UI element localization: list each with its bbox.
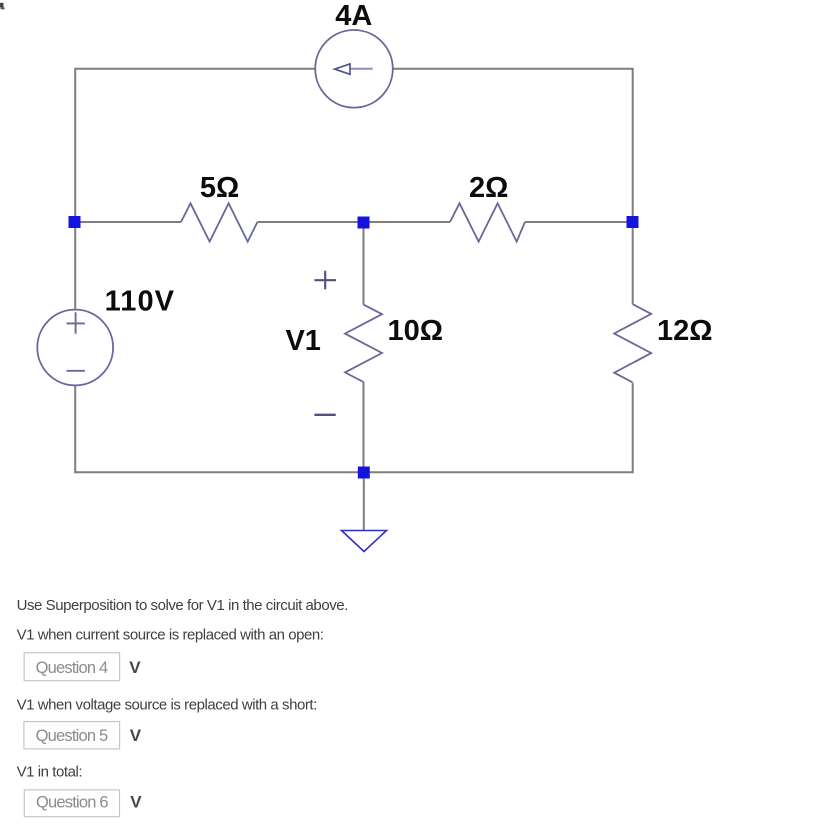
wire middle rail segment C [364,221,451,223]
wire middle rail segment B [257,221,363,223]
resistor R2 2Ω [450,203,525,241]
wire bottom rail [74,471,632,473]
svg-text:4A: 4A [335,0,372,32]
resistor R4 12Ω [614,304,651,382]
svg-text:2Ω: 2Ω [469,172,508,204]
svg-text:V: V [130,726,142,745]
resistor R1 5Ω [181,203,257,241]
svg-text:V1 when current source is repl: V1 when current source is replaced with … [17,626,324,643]
svg-text:V: V [129,658,141,677]
wire middle branch lower [363,382,365,472]
svg-text:5Ω: 5Ω [200,172,239,204]
svg-text:12Ω: 12Ω [657,315,713,347]
svg-text:110V: 110V [105,286,176,318]
wire top rail right segment [393,68,633,70]
wire left rail lower [74,385,76,473]
wire top rail left segment [75,68,315,70]
wire right rail upper [632,68,634,304]
wire middle rail segment D [525,221,633,223]
svg-text:V1 when voltage source is repl: V1 when voltage source is replaced with … [17,696,317,713]
wire middle rail segment A [75,221,181,223]
node B middle junction [358,217,370,229]
answer box Question 4 [24,653,119,681]
svg-text:V1 in total:: V1 in total: [17,763,82,780]
answer box Question 5 [24,722,120,749]
node A left junction [69,216,81,228]
svg-text:Question 4: Question 4 [36,659,108,677]
wire left rail upper [74,68,76,310]
svg-text:V: V [130,792,142,811]
svg-text:V1: V1 [285,325,320,357]
voltage source VS 110V [37,310,113,386]
polarity plus sign of V1 [314,271,336,290]
svg-text:10Ω: 10Ω [387,315,443,347]
svg-text:Question 5: Question 5 [36,727,108,745]
answer box Question 6 [24,790,119,817]
ground [342,531,387,552]
current source I1 4A [315,30,393,108]
svg-text:Use Superposition to solve for: Use Superposition to solve for V1 in the… [17,597,348,614]
wire middle branch upper [363,222,365,305]
node C right junction [627,216,639,228]
svg-text:Question 6: Question 6 [36,793,108,811]
resistor R3 10Ω [345,305,382,382]
polarity minus sign of V1 [314,414,335,416]
wire right rail lower [632,383,634,473]
node D bottom junction [358,467,370,479]
cropped text fragment top-left [0,3,5,10]
wire ground stem [363,472,365,530]
